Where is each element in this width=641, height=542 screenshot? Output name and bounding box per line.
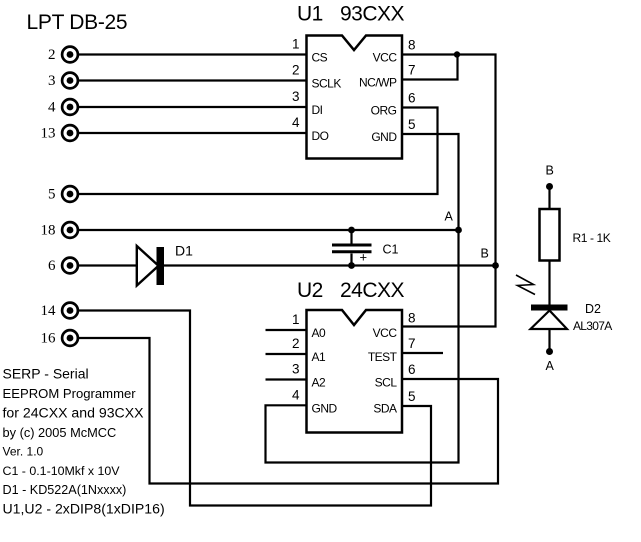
junction dot node A [455,227,462,234]
svg-text:A2: A2 [312,376,327,390]
svg-text:2: 2 [292,336,300,351]
junction dot U1 VCC/NC-WP [454,51,460,57]
svg-text:TEST: TEST [368,350,398,364]
svg-text:EEPROM Programmer: EEPROM Programmer [3,386,137,401]
wire R1 to D2 [548,261,550,305]
svg-text:R1 - 1K: R1 - 1K [573,231,611,245]
svg-text:NC/WP: NC/WP [359,75,397,89]
wire LPT pin16 to U2 SCL (pin 6) [79,338,498,484]
svg-text:C1 - 0.1-10Mkf x 10V: C1 - 0.1-10Mkf x 10V [3,464,121,478]
svg-text:6: 6 [408,362,416,377]
svg-text:A: A [445,210,454,224]
svg-text:7: 7 [408,336,416,351]
wire LPT pin13 to U1 DO [79,132,307,134]
wire U2 TEST pin7 stub (unconnected) [402,352,443,354]
svg-text:D1: D1 [175,243,193,259]
svg-text:16: 16 [41,331,57,347]
connector LPT pin 13 [41,125,78,141]
svg-text:CS: CS [312,50,328,64]
IC U1 93CXX body outline with notch [307,36,403,159]
svg-text:A0: A0 [312,326,327,340]
wire U2 A0 pin1 stub [266,329,307,331]
wire U2 A1 pin2 stub [266,353,307,355]
connector LPT pin 3 [48,73,78,89]
svg-text:SCL: SCL [375,376,398,390]
svg-text:VCC: VCC [373,50,398,64]
svg-text:+: + [360,250,368,265]
svg-text:DO: DO [312,129,329,143]
svg-text:1: 1 [292,37,300,52]
svg-text:14: 14 [41,303,57,319]
wire LPT pin4 to U1 DI [79,106,307,108]
svg-text:5: 5 [408,389,416,404]
connector LPT pin 16 [41,330,78,346]
svg-text:6: 6 [408,91,416,106]
wire D2 to A terminal [548,329,550,352]
svg-text:GND: GND [312,401,338,415]
svg-text:3: 3 [292,89,300,104]
wire VCC net: U1 VCC pin8 right, down through node B to U2 VCC pin8 [402,55,496,327]
svg-text:A1: A1 [312,350,327,364]
connector LPT pin 5 [48,186,78,202]
capacitor C1 top plate [332,244,372,247]
svg-text:C1: C1 [383,243,399,257]
capacitor C1 top lead [350,230,352,244]
wire GND net: U1 GND pin5 down through node A to U2 GND pin4 [266,134,459,463]
connector LPT pin 6 [48,258,78,274]
LED D2 cathode bar [531,305,568,311]
connector LPT pin 18 [41,222,78,238]
connector LPT pin 14 [41,303,78,319]
svg-text:for 24CXX and 93CXX: for 24CXX and 93CXX [3,404,145,420]
IC U2 24CXX body outline with notch [307,310,403,433]
connector LPT pin 4 [48,99,78,115]
svg-text:B: B [546,164,554,178]
svg-text:LPT DB-25: LPT DB-25 [27,11,128,34]
wire net A: LPT pin18 to node A [79,229,459,231]
svg-text:4: 4 [292,115,300,130]
capacitor C1 bottom plate [332,250,372,253]
wire U1 NC/WP pin7 stub up to VCC wire [402,55,458,80]
wire B terminal to R1 [548,187,550,210]
terminal dot B [546,183,553,190]
svg-text:A: A [546,359,555,373]
svg-text:DI: DI [312,103,323,117]
wire U2 A2 pin3 stub [266,378,307,380]
resistor R1 body [540,209,560,261]
wire D1 cathode to node B [164,264,496,266]
svg-text:2: 2 [48,47,56,63]
diode D1 triangle [137,246,159,286]
junction dot C1 bottom on net B [348,262,355,269]
svg-text:AL307A: AL307A [573,319,612,333]
svg-text:6: 6 [48,258,56,274]
LED D2 triangle [531,311,568,330]
wire LPT pin3 to U1 SCLK [79,79,307,81]
svg-text:B: B [481,247,489,261]
svg-text:13: 13 [41,126,56,142]
wire LPT pin5 to U1 ORG (pin 6) [79,108,438,195]
svg-text:4: 4 [48,100,56,116]
svg-text:U2: U2 [297,279,323,302]
svg-text:Ver. 1.0: Ver. 1.0 [3,445,44,459]
svg-text:D2: D2 [585,302,601,316]
svg-text:U1: U1 [297,3,323,26]
wire LPT pin2 to U1 CS [79,53,307,55]
svg-text:U1,U2 - 2xDIP8(1xDIP16): U1,U2 - 2xDIP8(1xDIP16) [3,500,165,516]
svg-text:8: 8 [408,311,416,326]
svg-text:GND: GND [371,130,397,144]
svg-text:1: 1 [292,312,300,327]
wire LPT pin14 to U2 SDA (pin 5) [79,311,431,506]
capacitor C1 bottom lead [350,254,352,266]
svg-text:8: 8 [408,38,416,53]
svg-text:93CXX: 93CXX [340,3,405,26]
svg-text:SCLK: SCLK [312,76,342,90]
svg-text:ORG: ORG [371,103,397,117]
terminal dot A [546,348,553,355]
svg-text:18: 18 [41,223,56,239]
svg-text:4: 4 [292,387,300,402]
svg-text:24CXX: 24CXX [340,279,405,302]
diode D1 cathode bar [157,247,165,285]
svg-text:2: 2 [292,63,300,78]
connector LPT pin 2 [48,47,78,63]
svg-text:SERP - Serial: SERP - Serial [3,365,89,381]
svg-text:3: 3 [48,73,56,89]
svg-text:3: 3 [292,362,300,377]
LED D2 emission arrows (zigzag) [516,275,535,295]
svg-text:D1 - KD522A(1Nxxxx): D1 - KD522A(1Nxxxx) [3,483,127,497]
svg-text:SDA: SDA [373,401,397,415]
junction dot C1 top on net A [348,227,355,234]
wire LPT pin6 to D1 anode [79,264,137,266]
svg-text:5: 5 [48,187,56,203]
svg-text:VCC: VCC [373,326,398,340]
svg-text:7: 7 [408,63,416,78]
junction dot node B [492,262,499,269]
svg-text:5: 5 [408,117,416,132]
svg-text:by (c) 2005 McMCC: by (c) 2005 McMCC [3,425,117,440]
